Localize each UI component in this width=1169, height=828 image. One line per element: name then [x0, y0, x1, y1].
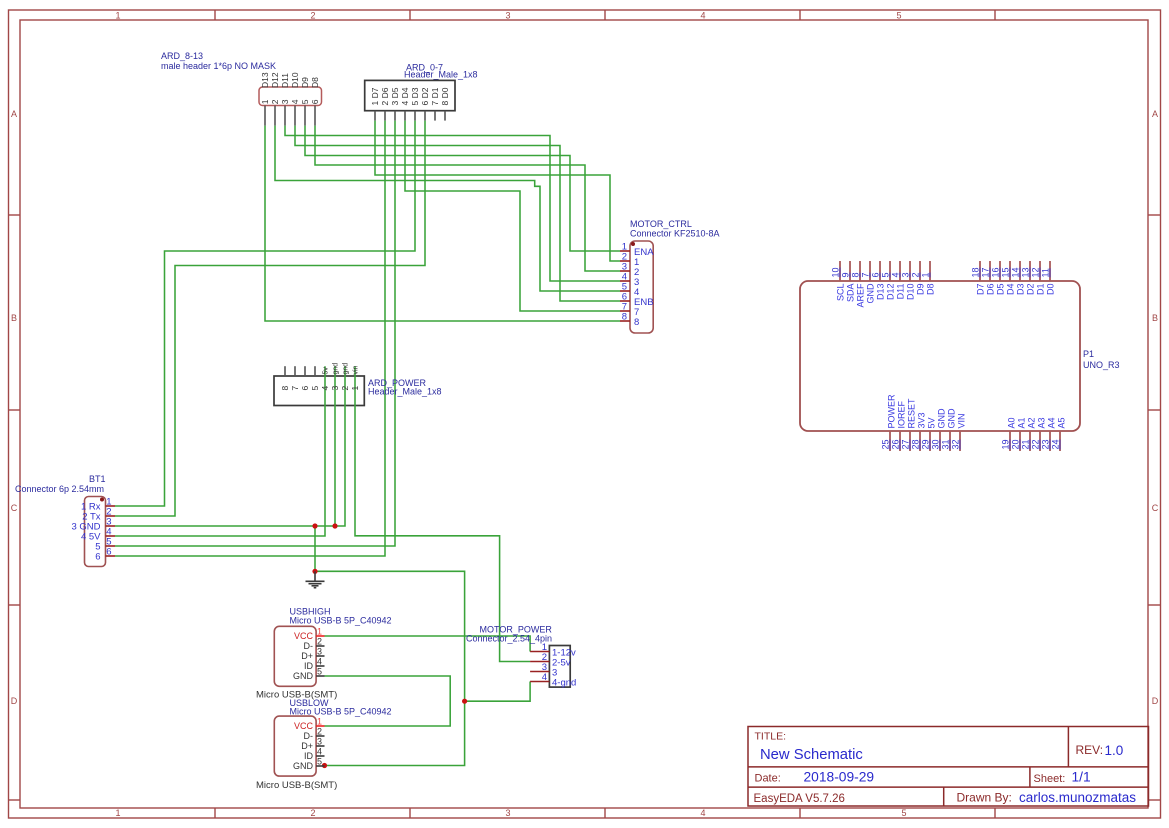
- svg-text:5: 5: [300, 99, 310, 104]
- svg-text:20: 20: [1011, 439, 1021, 449]
- svg-text:8: 8: [622, 312, 627, 323]
- svg-text:8: 8: [280, 386, 290, 391]
- wire D5: ARD_0-7 pin3 to BT1 pin5: [115, 121, 395, 546]
- svg-text:5v: 5v: [323, 367, 330, 375]
- svg-text:D10: D10: [290, 72, 300, 88]
- svg-text:TITLE:: TITLE:: [755, 731, 787, 743]
- svg-text:GND: GND: [937, 408, 947, 429]
- pins ARD_0-7: [375, 111, 445, 121]
- svg-text:4 D4: 4 D4: [400, 87, 410, 105]
- svg-text:6: 6: [871, 272, 881, 277]
- svg-text:ARD_8-13: ARD_8-13: [161, 51, 203, 61]
- svg-text:RESET: RESET: [907, 398, 917, 429]
- svg-text:AREF: AREF: [856, 283, 866, 308]
- svg-text:5: 5: [896, 11, 901, 21]
- svg-text:D13: D13: [260, 72, 270, 88]
- svg-text:D13: D13: [876, 284, 886, 301]
- svg-text:6: 6: [95, 552, 100, 563]
- svg-text:3: 3: [317, 647, 322, 657]
- svg-text:5: 5: [901, 808, 906, 818]
- connector ARD_8-13: [161, 51, 322, 126]
- svg-text:Drawn By:: Drawn By:: [957, 791, 1012, 805]
- pins BT1: [106, 506, 116, 556]
- pin numbers UNO bottom-right: [1001, 439, 1061, 449]
- svg-text:28: 28: [911, 439, 921, 449]
- svg-text:31: 31: [941, 439, 951, 449]
- svg-text:15: 15: [1001, 267, 1011, 277]
- pin labels ARD_0-7: [370, 87, 450, 105]
- svg-text:1 D7: 1 D7: [370, 87, 380, 105]
- svg-text:2: 2: [310, 11, 315, 21]
- svg-text:2: 2: [911, 272, 921, 277]
- svg-text:5 D3: 5 D3: [410, 87, 420, 105]
- svg-text:P1: P1: [1083, 349, 1094, 359]
- svg-text:6: 6: [300, 386, 310, 391]
- pin names ARD_8-13: [260, 72, 320, 88]
- pin numbers UNO top-right: [971, 267, 1051, 277]
- wire D3: ARD_0-7 pin5 to BT1 pin1 Rx: [115, 121, 415, 506]
- svg-text:11: 11: [1041, 268, 1051, 277]
- pin numbers MOTOR_POWER: [542, 642, 547, 683]
- svg-text:POWER: POWER: [887, 394, 897, 429]
- svg-text:D8: D8: [310, 77, 320, 88]
- svg-text:B: B: [11, 313, 17, 323]
- wire D11: ARD_8-13 pin3 to MOTOR_CTRL pin4: [285, 126, 620, 281]
- svg-text:3: 3: [317, 737, 322, 747]
- component U1 P1 UNO_R3: [800, 261, 1120, 451]
- junction dots: [312, 523, 467, 768]
- svg-text:Connector KF2510-8A: Connector KF2510-8A: [630, 229, 720, 239]
- svg-text:Connector 6p 2.54mm: Connector 6p 2.54mm: [15, 484, 104, 494]
- svg-text:17: 17: [981, 267, 991, 277]
- junction at MOTOR_POWER gnd: [462, 699, 467, 704]
- svg-text:6: 6: [106, 547, 111, 558]
- svg-text:3: 3: [505, 808, 510, 818]
- wire D8: ARD_8-13 pin6 to MOTOR_CTRL pin3: [315, 126, 620, 271]
- svg-text:23: 23: [1041, 439, 1051, 449]
- pin names UNO top-right: [976, 284, 1056, 296]
- pins UNO bottom-left group: [890, 431, 960, 451]
- junction at USBLOW GND pin: [322, 763, 327, 768]
- svg-text:14: 14: [1011, 267, 1021, 277]
- svg-text:4: 4: [542, 672, 547, 683]
- pins MOTOR_POWER: [530, 652, 549, 682]
- svg-text:2: 2: [270, 99, 280, 104]
- svg-text:ID: ID: [304, 661, 314, 671]
- svg-text:D12: D12: [270, 72, 280, 88]
- svg-text:1: 1: [317, 717, 322, 727]
- svg-text:12: 12: [1031, 267, 1041, 277]
- svg-text:Date:: Date:: [755, 773, 781, 785]
- svg-text:D1: D1: [1036, 284, 1046, 296]
- svg-text:D9: D9: [916, 284, 926, 296]
- pin numbers USBHIGH: [317, 627, 322, 677]
- wire D6: ARD_0-7 pin2 to BT1 pin6: [115, 121, 385, 556]
- svg-text:2: 2: [310, 808, 315, 818]
- wire D2: ARD_0-7 pin6 to BT1 pin2 Tx: [115, 121, 425, 516]
- connector USBLOW body: [274, 716, 316, 776]
- svg-text:3: 3: [280, 99, 290, 104]
- pin names UNO bottom-left: [887, 394, 967, 429]
- svg-text:A5: A5: [1057, 417, 1067, 428]
- connector USBLOW: [256, 698, 392, 791]
- svg-text:1: 1: [317, 627, 322, 637]
- svg-text:24: 24: [1051, 439, 1061, 449]
- svg-text:1: 1: [350, 386, 360, 391]
- wire BT1 5V to ARD_POWER pin4: [115, 366, 325, 536]
- svg-text:GND: GND: [866, 283, 876, 304]
- junction at GND bus / ground drop: [312, 523, 317, 528]
- svg-text:UNO_R3: UNO_R3: [1083, 360, 1120, 370]
- svg-text:3: 3: [901, 272, 911, 277]
- pins USBHIGH: [316, 636, 324, 676]
- svg-text:Header_Male_1x8: Header_Male_1x8: [368, 387, 442, 397]
- svg-text:A: A: [11, 109, 17, 119]
- svg-text:5V: 5V: [927, 417, 937, 428]
- svg-text:6: 6: [310, 99, 320, 104]
- svg-text:8: 8: [634, 317, 639, 328]
- svg-text:8 D0: 8 D0: [440, 87, 450, 105]
- svg-text:MOTOR_CTRL: MOTOR_CTRL: [630, 219, 692, 229]
- svg-text:Micro USB-B 5P_C40942: Micro USB-B 5P_C40942: [290, 707, 392, 717]
- junction at GND bus / ARD_POWER pin3: [332, 523, 337, 528]
- svg-text:A1: A1: [1017, 417, 1027, 428]
- svg-text:B: B: [1152, 313, 1158, 323]
- svg-text:SDA: SDA: [846, 284, 856, 303]
- svg-text:carlos.munozmatas: carlos.munozmatas: [1019, 790, 1136, 805]
- svg-text:Micro USB-B 5P_C40942: Micro USB-B 5P_C40942: [290, 616, 392, 626]
- pin numbers UNO bottom-left: [881, 439, 961, 449]
- junction at ground symbol: [312, 569, 317, 574]
- svg-text:GND: GND: [293, 671, 314, 681]
- svg-text:1: 1: [260, 99, 270, 104]
- svg-text:D12: D12: [886, 284, 896, 301]
- wire ARD_POWER pin3 to GND bus: [334, 366, 336, 526]
- svg-text:Header_Male_1x8: Header_Male_1x8: [404, 70, 478, 80]
- svg-text:5: 5: [317, 757, 322, 767]
- svg-text:A4: A4: [1047, 417, 1057, 428]
- svg-text:D5: D5: [996, 284, 1006, 296]
- svg-text:SCL: SCL: [836, 284, 846, 302]
- wire D4: ARD_0-7 pin4 to MOTOR_CTRL pin7: [405, 121, 620, 311]
- svg-text:19: 19: [1001, 439, 1011, 449]
- svg-text:ID: ID: [304, 751, 314, 761]
- svg-text:D2: D2: [1026, 284, 1036, 296]
- pins UNO top-right group: [980, 261, 1050, 281]
- wire ARD_POWER pin1 to MOTOR_POWER pin2: [355, 366, 530, 661]
- svg-text:4: 4: [700, 808, 705, 818]
- pin numbers BT1: [106, 497, 111, 558]
- first pin marker dot: [631, 242, 635, 246]
- svg-text:4: 4: [290, 99, 300, 104]
- component UNO_R3 body: [800, 281, 1080, 431]
- wire ground drop: [314, 526, 316, 571]
- svg-text:7: 7: [290, 386, 300, 391]
- svg-text:VIN: VIN: [957, 413, 967, 428]
- svg-text:2: 2: [317, 637, 322, 647]
- connector ARD_POWER body: [274, 376, 364, 406]
- svg-text:D0: D0: [1046, 284, 1056, 296]
- connector MOTOR_CTRL: [620, 219, 720, 333]
- svg-text:D: D: [1152, 696, 1159, 706]
- pins MOTOR_CTRL: [620, 251, 630, 321]
- connector BT1 body: [85, 497, 106, 567]
- svg-text:2 D6: 2 D6: [380, 87, 390, 105]
- svg-text:3: 3: [505, 11, 510, 21]
- svg-text:male header 1*6p NO MASK: male header 1*6p NO MASK: [161, 61, 276, 71]
- svg-text:6 D2: 6 D2: [420, 87, 430, 105]
- svg-text:30: 30: [931, 439, 941, 449]
- svg-text:1/1: 1/1: [1072, 770, 1091, 785]
- title block: [748, 727, 1149, 807]
- wire USBHIGH VCC to MOTOR_POWER pin1: [325, 636, 531, 652]
- svg-text:21: 21: [1021, 439, 1031, 449]
- svg-text:7 D1: 7 D1: [430, 87, 440, 105]
- pins UNO bottom-right group: [1010, 431, 1060, 451]
- svg-text:3V3: 3V3: [917, 412, 927, 428]
- svg-text:7: 7: [861, 272, 871, 277]
- svg-text:2: 2: [317, 727, 322, 737]
- svg-text:D4: D4: [1006, 284, 1016, 296]
- wire USBHIGH GND to USBLOW VCC: [325, 676, 451, 726]
- svg-text:D-: D-: [304, 641, 314, 651]
- pins USBLOW: [316, 726, 324, 766]
- ground symbol: [306, 571, 325, 587]
- svg-text:8: 8: [851, 272, 861, 277]
- connector ARD_8-13 body: [259, 87, 322, 106]
- svg-text:9: 9: [841, 272, 851, 277]
- svg-text:27: 27: [901, 439, 911, 449]
- svg-text:18: 18: [971, 267, 981, 277]
- svg-text:gnd: gnd: [343, 363, 350, 375]
- svg-text:EasyEDA V5.7.26: EasyEDA V5.7.26: [754, 793, 845, 805]
- svg-text:D+: D+: [301, 741, 313, 751]
- net name labels ARD_POWER: [323, 363, 360, 375]
- pin names UNO bottom-right: [1007, 417, 1067, 428]
- svg-text:GND: GND: [293, 761, 314, 771]
- svg-text:1: 1: [115, 11, 120, 21]
- svg-text:D11: D11: [896, 284, 906, 300]
- pin names BT1: [71, 502, 101, 563]
- svg-text:3: 3: [330, 386, 340, 391]
- svg-text:D11: D11: [280, 73, 290, 88]
- svg-text:29: 29: [921, 439, 931, 449]
- svg-text:26: 26: [891, 439, 901, 449]
- pin numbers UNO top-left: [831, 267, 931, 277]
- pin numbers ARD_8-13: [260, 99, 320, 104]
- connector USBHIGH body: [274, 626, 316, 686]
- svg-text:1: 1: [921, 272, 931, 277]
- svg-text:BT1: BT1: [89, 474, 106, 484]
- svg-text:1: 1: [115, 808, 120, 818]
- svg-text:D10: D10: [906, 284, 916, 301]
- svg-text:REV:: REV:: [1076, 743, 1104, 757]
- svg-text:4: 4: [317, 657, 322, 667]
- svg-text:C: C: [1152, 503, 1159, 513]
- svg-text:32: 32: [951, 439, 961, 449]
- connector MOTOR_POWER: [466, 625, 576, 689]
- svg-text:gnd: gnd: [333, 363, 340, 375]
- svg-text:2018-09-29: 2018-09-29: [804, 770, 875, 785]
- svg-text:D7: D7: [976, 284, 986, 296]
- wire D13: ARD_8-13 pin1 to MOTOR_CTRL pin8: [265, 126, 620, 321]
- svg-text:D-: D-: [304, 731, 314, 741]
- svg-text:VCC: VCC: [294, 631, 314, 641]
- svg-text:IOREF: IOREF: [897, 400, 907, 428]
- svg-text:C: C: [11, 503, 18, 513]
- pin names MOTOR_CTRL: [634, 247, 654, 328]
- svg-text:25: 25: [881, 439, 891, 449]
- svg-text:A2: A2: [1027, 417, 1037, 428]
- wire D9: ARD_8-13 pin5 to MOTOR_CTRL pin1: [305, 126, 620, 251]
- connector BT1: [15, 474, 115, 567]
- svg-text:D9: D9: [300, 77, 310, 88]
- wire MOTOR_POWER pin4 branch: [465, 682, 530, 702]
- svg-text:A3: A3: [1037, 417, 1047, 428]
- wire D12: ARD_8-13 pin2 to MOTOR_CTRL pin5: [275, 126, 620, 291]
- svg-text:22: 22: [1031, 439, 1041, 449]
- connector ARD_0-7: [365, 63, 478, 121]
- pin names USBLOW: [293, 721, 314, 771]
- svg-text:D+: D+: [301, 651, 313, 661]
- svg-text:5: 5: [881, 272, 891, 277]
- pins ARD_8-13: [265, 106, 315, 126]
- svg-text:VCC: VCC: [294, 721, 314, 731]
- svg-text:3 D5: 3 D5: [390, 87, 400, 105]
- svg-text:4: 4: [320, 386, 330, 391]
- pins ARD_POWER: [285, 366, 315, 376]
- pin numbers ARD_POWER: [280, 386, 360, 391]
- svg-text:A0: A0: [1007, 417, 1017, 428]
- svg-text:16: 16: [991, 267, 1001, 277]
- svg-text:4: 4: [891, 272, 901, 277]
- wire GND bus: BT1 pin3 to ARD_POWER pin2: [115, 366, 345, 526]
- svg-text:4: 4: [317, 747, 322, 757]
- wire gnd run to USB/motor area: [315, 571, 465, 765]
- wire D7: ARD_0-7 pin1 to MOTOR_CTRL pin2: [375, 121, 620, 261]
- svg-text:New Schematic: New Schematic: [760, 747, 863, 763]
- svg-text:Connector_2.54_4pin: Connector_2.54_4pin: [466, 634, 552, 644]
- pin names UNO top-left: [836, 283, 936, 308]
- connector MOTOR_POWER body: [549, 646, 570, 688]
- svg-text:13: 13: [1021, 267, 1031, 277]
- svg-text:GND: GND: [947, 408, 957, 429]
- svg-text:10: 10: [831, 267, 841, 277]
- connector ARD_0-7 body: [365, 80, 455, 110]
- svg-text:vin: vin: [353, 365, 360, 374]
- svg-text:5: 5: [317, 667, 322, 677]
- pin numbers MOTOR_CTRL: [622, 242, 627, 323]
- svg-text:Micro USB-B(SMT): Micro USB-B(SMT): [256, 780, 337, 791]
- svg-text:A: A: [1152, 109, 1158, 119]
- svg-text:2: 2: [340, 386, 350, 391]
- pin names USBHIGH: [293, 631, 314, 681]
- svg-text:4: 4: [700, 11, 705, 21]
- connector ARD_POWER: [280, 363, 442, 397]
- wire D10: ARD_8-13 pin4 to MOTOR_CTRL pin6: [295, 126, 620, 301]
- connector USBHIGH: [256, 607, 392, 701]
- svg-text:D8: D8: [926, 284, 936, 296]
- connector MOTOR_CTRL body: [630, 241, 653, 333]
- svg-text:D6: D6: [986, 284, 996, 296]
- first pin marker dot: [100, 498, 104, 502]
- svg-text:D: D: [11, 696, 18, 706]
- svg-text:4-gnd: 4-gnd: [552, 678, 576, 689]
- pins UNO top-left group: [840, 261, 930, 281]
- pin numbers USBLOW: [317, 717, 322, 767]
- svg-text:1.0: 1.0: [1105, 743, 1124, 758]
- svg-text:Sheet:: Sheet:: [1034, 773, 1066, 785]
- pin names MOTOR_POWER: [552, 648, 576, 689]
- svg-text:5: 5: [310, 386, 320, 391]
- svg-text:D3: D3: [1016, 284, 1026, 296]
